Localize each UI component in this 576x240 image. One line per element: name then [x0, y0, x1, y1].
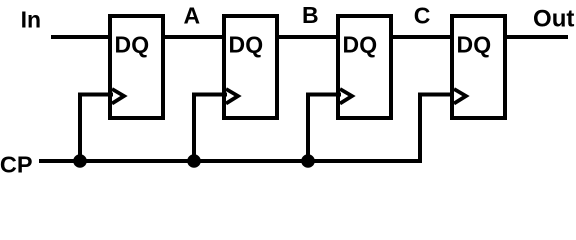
svg-text:D: D: [457, 31, 474, 57]
wire CP riser to U2 clock: [194, 95, 227, 164]
svg-text:D: D: [115, 31, 132, 57]
svg-text:Q: Q: [131, 31, 149, 57]
svg-text:B: B: [302, 2, 319, 28]
svg-text:CP: CP: [0, 151, 33, 177]
clock triangle U1: [112, 89, 124, 104]
svg-text:D: D: [229, 31, 246, 57]
clock triangle U4: [454, 89, 466, 104]
svg-text:Q: Q: [473, 31, 491, 57]
flip-flop U1: [110, 16, 163, 118]
svg-text:C: C: [414, 3, 431, 29]
wire CP riser to U3 clock: [308, 95, 341, 164]
wire U4 Q to Out: [503, 35, 568, 39]
wire U1 Q to U2 D: [161, 35, 226, 39]
flip-flop U3: [338, 16, 391, 118]
svg-text:A: A: [184, 2, 201, 28]
wire In to U1 D input: [51, 35, 112, 39]
flip-flop U4: [452, 16, 505, 118]
junction dot CP/U3: [301, 154, 315, 168]
junction dot CP/U1: [73, 154, 87, 168]
svg-text:Q: Q: [359, 31, 377, 57]
svg-text:In: In: [21, 6, 41, 32]
wire CP bus with riser to U4 clock: [39, 95, 454, 162]
wire U2 Q to U3 D: [275, 35, 340, 39]
svg-text:Q: Q: [245, 31, 263, 57]
flip-flop U2: [224, 16, 277, 118]
svg-text:Out: Out: [533, 5, 574, 32]
clock triangle U2: [226, 89, 238, 104]
wire U3 Q to U4 D: [389, 35, 454, 39]
junction dot CP/U2: [187, 154, 201, 168]
clock triangle U3: [340, 89, 352, 104]
svg-text:D: D: [343, 31, 360, 57]
wire CP riser to U1 clock: [80, 95, 113, 164]
